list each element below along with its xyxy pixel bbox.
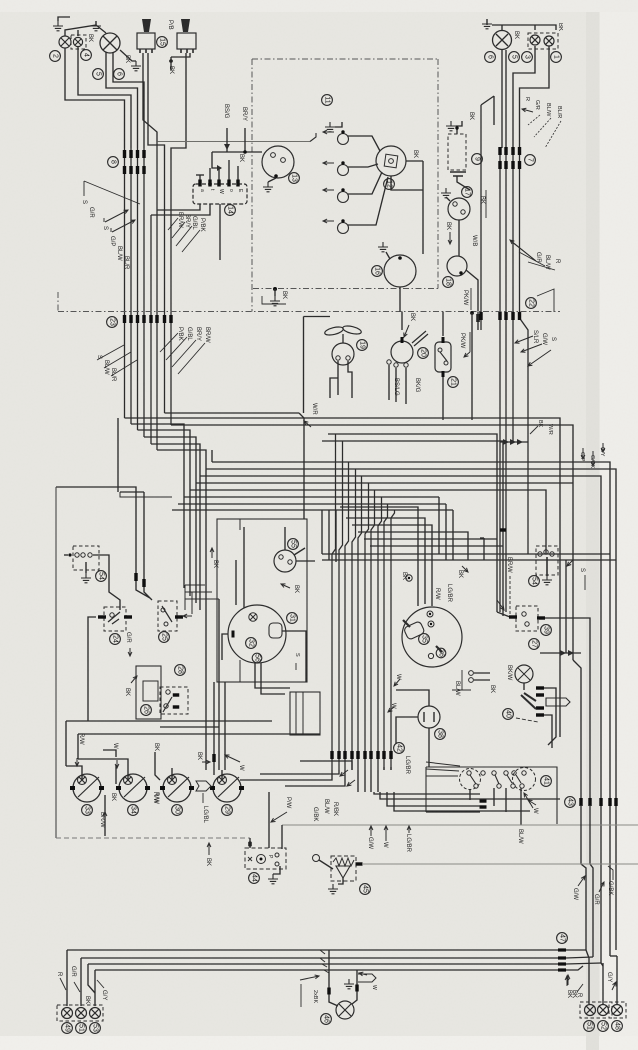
item 13 ignition switch xyxy=(289,173,300,184)
stubs console xyxy=(384,767,391,770)
item 33 gauge xyxy=(82,805,93,816)
gauge pin right 33 xyxy=(99,786,104,790)
item 49 lamp xyxy=(62,1023,73,1034)
item 9 battery xyxy=(472,154,483,165)
coil terminal 2 xyxy=(461,210,465,214)
ign terminal b xyxy=(281,158,286,163)
connector42 pin x332 xyxy=(330,751,333,759)
x484 link xyxy=(480,537,484,539)
arrow gp xyxy=(581,448,585,459)
sw25 terminal a xyxy=(161,608,165,612)
flasher dot xyxy=(260,858,263,861)
s bracket xyxy=(584,575,586,590)
sw39 term b xyxy=(525,622,529,626)
drops into console xyxy=(358,770,378,792)
stair h y539 xyxy=(364,538,497,540)
starter terminal xyxy=(398,256,402,260)
ground bulkhead xyxy=(270,296,280,306)
item 46 lamp xyxy=(321,1014,332,1025)
stair h y525 xyxy=(352,525,432,606)
connector pin upper row xyxy=(136,150,139,158)
sw40 wire right xyxy=(544,688,556,745)
lamp46 lead left xyxy=(329,950,338,1006)
wire coil to starter aux xyxy=(458,220,460,256)
connector42 pin x378 xyxy=(376,751,379,759)
fan wire d xyxy=(300,761,352,770)
battery lead xyxy=(456,128,458,134)
wire fuse drop xyxy=(219,204,221,260)
battery box xyxy=(448,134,466,170)
rear lamp link 1 xyxy=(586,950,589,975)
item 21 xyxy=(448,377,459,388)
generator 18 xyxy=(447,256,467,276)
arrowhead BS/G xyxy=(224,144,230,150)
connector pin bulkhead row xyxy=(149,315,152,323)
loom drop x391 xyxy=(391,510,395,770)
right flasher housing xyxy=(528,33,558,49)
s leader xyxy=(295,663,297,670)
sw41 term top x494 xyxy=(492,771,496,775)
arrow gy xyxy=(601,443,605,452)
headlamp right xyxy=(493,31,512,50)
warning gauge 29 xyxy=(213,774,241,802)
sw41 term bottom x476 xyxy=(474,784,478,788)
nest h y504 xyxy=(178,504,446,560)
nest run y437 drop x196 xyxy=(144,437,196,603)
terminal pair b xyxy=(469,678,474,683)
wiper linkage xyxy=(412,331,428,346)
run y727 xyxy=(160,726,219,728)
battery to coil link xyxy=(457,176,470,190)
gauge29 hub feed xyxy=(221,770,223,780)
wire stub to ground xyxy=(274,289,276,296)
wire fuse link a xyxy=(212,152,221,168)
x304 corner right xyxy=(304,316,331,318)
ground front lamp xyxy=(91,21,101,31)
item 4 flasher lamp xyxy=(81,50,92,61)
headlamp left xyxy=(100,33,120,53)
stub top xyxy=(103,750,116,757)
54L lead dot xyxy=(68,553,71,556)
connector pin right upper xyxy=(498,147,501,155)
pin x144 xyxy=(142,579,145,587)
bulkhead dash-dot line xyxy=(58,311,560,313)
sw40 pin y695 xyxy=(536,693,544,696)
sw41 feeds left xyxy=(426,762,460,776)
item 52 rear xyxy=(598,1021,609,1032)
arrow brw xyxy=(103,812,107,822)
fan motor 19 xyxy=(332,343,354,365)
sw41 term top x483 xyxy=(481,771,485,775)
merge arrowheads xyxy=(503,439,523,445)
starter motor 16 xyxy=(384,255,416,287)
distributor 12 xyxy=(376,146,406,176)
plug lead 1 xyxy=(348,136,380,151)
wire stub down xyxy=(170,57,172,70)
lamp55 leads xyxy=(285,527,305,555)
nest run y444 drop x200 xyxy=(151,444,200,610)
gauge pin left 33 xyxy=(70,786,75,790)
lamp55 lead right xyxy=(296,560,315,562)
P/W wire to flasher xyxy=(268,792,270,848)
wire switchA feed xyxy=(143,53,157,142)
connector pin lower row xyxy=(136,166,139,174)
horn 45 box xyxy=(331,856,356,881)
ground flasher xyxy=(268,874,278,884)
spark plug 3 xyxy=(338,192,349,203)
fuse box pin xyxy=(217,180,220,187)
connector pin lower row xyxy=(129,166,132,174)
front lamp 53 xyxy=(90,1008,101,1019)
sw40 wire right 2 xyxy=(544,715,552,748)
ign terminal c xyxy=(274,174,278,178)
wire sideR feed xyxy=(520,46,550,148)
item 55 lamp xyxy=(288,539,299,550)
rear lamp 51 xyxy=(585,1005,596,1016)
plug terminal 1 xyxy=(341,130,344,133)
leader lines bulkhead xyxy=(160,333,205,374)
ground dip xyxy=(131,61,141,71)
horn terminal lead xyxy=(319,860,333,869)
horn coil zigzag xyxy=(333,858,354,866)
front lamp 51 xyxy=(76,1008,87,1019)
nest run y424 drop x184 xyxy=(131,424,184,588)
wire generator lead xyxy=(466,270,478,311)
arrow gy rear xyxy=(612,982,616,990)
arrow bk pin xyxy=(202,760,210,764)
heater resistor box 26 xyxy=(136,666,161,719)
item 36 xyxy=(436,648,446,658)
jog out 3 xyxy=(566,963,601,964)
arrow wiper xyxy=(404,325,409,337)
wire bus 4 xyxy=(143,148,145,437)
leader r front xyxy=(60,978,66,990)
junction ign feed xyxy=(243,150,247,154)
coil terminal 1 xyxy=(453,202,457,206)
pump lead up xyxy=(442,312,444,337)
bottom run 2 xyxy=(81,957,563,959)
fan terminal 2 xyxy=(346,356,350,360)
sw41 term top x469 xyxy=(467,771,471,775)
wire top-right feed xyxy=(487,19,556,30)
jog d xyxy=(324,970,329,973)
arrow w h xyxy=(394,679,400,686)
gauge right lead to box edge xyxy=(282,631,306,682)
spark plug 1 xyxy=(338,134,349,145)
arrow fan a xyxy=(340,770,348,776)
lighter bottom margin xyxy=(0,1036,638,1050)
jog out 2 xyxy=(566,957,593,958)
wire lamp4 stub xyxy=(77,30,79,36)
wire right bus 0 xyxy=(480,105,482,330)
junction at flasher top xyxy=(248,841,252,845)
horn ground lead xyxy=(338,878,343,884)
sw39 term a xyxy=(522,612,526,616)
lamp55 term b xyxy=(288,560,292,564)
gauge left lead xyxy=(222,634,228,660)
wire starter ground xyxy=(386,252,390,259)
leader lines right bus xyxy=(512,242,555,270)
connector43 pin x610 xyxy=(608,798,611,806)
front lamp 49 xyxy=(62,1008,73,1019)
gauge bulb 29 xyxy=(218,776,227,785)
pump lead down xyxy=(442,377,444,420)
flasher unit 44 box xyxy=(245,848,286,869)
terminal pair a xyxy=(469,671,474,676)
nest h y434 to sw39 xyxy=(328,434,497,612)
arrow w console xyxy=(528,800,536,805)
interior boundary vertical xyxy=(55,487,57,838)
fuse box pin xyxy=(198,180,201,187)
battery terminal xyxy=(455,126,458,129)
arrow flag xyxy=(359,972,367,976)
stalk switch body A xyxy=(137,33,155,49)
gauge needle 34 xyxy=(124,777,145,797)
fuse box pin xyxy=(227,180,230,187)
connector pin right upper xyxy=(504,147,507,155)
flasher term a xyxy=(275,853,279,857)
arrow pkw2 xyxy=(464,352,470,357)
speedo term 2 xyxy=(428,621,434,627)
console bottom lead xyxy=(426,811,480,813)
sw40 connector flag xyxy=(546,698,570,706)
ground item 11 xyxy=(325,122,335,132)
54R term c xyxy=(550,552,554,556)
wire link to headlamp xyxy=(96,25,106,33)
connector flag 46 xyxy=(358,974,376,982)
item 5 headlamp main xyxy=(93,69,104,80)
gauge pin left 34 xyxy=(116,786,121,790)
arrow w h2 xyxy=(388,707,394,712)
interior boundary bottom xyxy=(56,837,250,839)
side lamp 2 xyxy=(59,36,71,48)
ground ignition xyxy=(263,182,273,192)
item 39 switch xyxy=(541,625,552,636)
leader gr front xyxy=(74,982,80,992)
lamp55 term a xyxy=(279,555,283,559)
connector47 pin y958 xyxy=(558,956,566,959)
link nest to mid bus xyxy=(321,510,323,554)
warning gauge 33 xyxy=(73,774,101,802)
wire switchB feed xyxy=(171,53,186,160)
switch 39 box xyxy=(516,606,538,631)
connector pin bulkhead row xyxy=(136,315,139,323)
pin sw39 left xyxy=(509,615,517,618)
warning gauge 30 xyxy=(163,774,191,802)
wire BS/G drop xyxy=(226,128,228,152)
item 28 switch xyxy=(175,665,186,676)
arrow speedo feed xyxy=(462,566,468,572)
x566 drop xyxy=(565,560,567,653)
wire switchA feed 2 xyxy=(148,53,165,160)
plug terminal 2 xyxy=(341,161,344,164)
gauge term xyxy=(249,613,257,621)
speedo inner box xyxy=(403,621,425,640)
wire 54L to switch24 xyxy=(93,555,120,610)
loom drop x345 xyxy=(345,462,349,770)
connector47 pin y950 xyxy=(558,948,566,951)
switch 24 box xyxy=(104,607,126,631)
wire switchB link xyxy=(171,53,190,57)
gauge feeds xyxy=(236,527,244,608)
front lamp lead 2 xyxy=(80,958,82,1006)
wire ground 11 xyxy=(335,122,342,127)
leader gy front xyxy=(97,980,104,988)
connector pin bulkhead row xyxy=(155,315,158,323)
junction bulkhead right xyxy=(470,311,474,315)
rear link 2 xyxy=(601,963,603,966)
console out d xyxy=(394,792,530,811)
sw40 pin y715 xyxy=(536,713,544,716)
loom drop x358 xyxy=(358,476,362,770)
wire right bus 3 xyxy=(512,148,514,442)
item 54 switch xyxy=(96,571,107,582)
connector pin right bulkhead xyxy=(511,312,514,320)
instrument cluster box xyxy=(217,519,307,682)
rear lamp lead 2 xyxy=(602,963,604,1004)
item 34 gauge xyxy=(128,805,139,816)
interior lamp 55 xyxy=(274,550,296,572)
connector42 pin x345 xyxy=(343,751,346,759)
leader arrow to bus 2 xyxy=(112,220,135,232)
flasher top lead xyxy=(249,838,251,848)
connector pin bulkhead row xyxy=(142,315,145,323)
starter lead down xyxy=(399,287,401,312)
item 29 gauge xyxy=(222,805,233,816)
nest h y490 xyxy=(190,490,546,554)
arrow gbk xyxy=(591,451,595,466)
item 17 coil xyxy=(462,187,473,198)
connector43 pin x590 xyxy=(588,798,591,806)
boundary right dash-dot xyxy=(437,59,439,289)
54L ground lead xyxy=(85,562,87,573)
wire headlamp main feed xyxy=(106,52,138,148)
wire bus0 head xyxy=(481,96,494,125)
stub right xyxy=(477,312,479,331)
flasher lamp right xyxy=(530,35,540,45)
connector pin right bulkhead xyxy=(504,312,507,320)
gauge34 hub feed xyxy=(78,759,128,780)
arrow rw xyxy=(75,758,79,766)
ground coil xyxy=(441,188,451,198)
stalk switch body B xyxy=(177,33,196,49)
nest h y510 xyxy=(172,510,453,560)
speedo dot 1 xyxy=(429,613,431,615)
speedometer dial xyxy=(402,607,462,667)
run left y721 xyxy=(66,721,160,766)
loom drop x339 xyxy=(339,441,343,770)
leader arrow c xyxy=(528,350,551,366)
pin lamp46 xyxy=(327,988,330,995)
nest h y441 down xyxy=(322,441,503,616)
sw40 dash link xyxy=(516,718,538,722)
item 53 lamp xyxy=(90,1023,101,1034)
bracket item22 xyxy=(537,289,554,312)
gauge bulb 30 xyxy=(168,776,177,785)
warning gauge 34 xyxy=(119,774,147,802)
connector42 pin x371 xyxy=(369,751,372,759)
merge arrowheads y653 xyxy=(560,650,574,656)
stalk switch handle A xyxy=(142,19,151,32)
gauge needle 30 xyxy=(168,777,189,797)
bottom run 4 xyxy=(95,969,560,971)
x484 stub xyxy=(483,538,485,560)
faint scan band xyxy=(586,0,599,1050)
number plate lamp 46 xyxy=(336,1001,354,1019)
front lamp lead 3 xyxy=(94,970,96,1006)
connector arrow main cross run xyxy=(310,133,316,142)
leader line G/R xyxy=(84,181,140,204)
item 23 bulkhead connector xyxy=(107,317,118,328)
rear lamp box a xyxy=(580,1002,612,1018)
drop to flasher xyxy=(281,825,283,849)
plug lead 3 xyxy=(348,172,382,194)
nest h y497 xyxy=(184,497,439,554)
item 14 fuse box xyxy=(225,205,236,216)
boundary left dash-dot xyxy=(251,59,253,312)
lighter right margin xyxy=(600,0,638,1050)
drop to lamp row c xyxy=(224,682,226,770)
fan blades xyxy=(342,334,344,343)
x304 vertical from boundary xyxy=(303,317,305,414)
fuse label leaders xyxy=(168,218,200,252)
plug lead arrow 2 xyxy=(323,161,334,165)
inner stubs xyxy=(185,585,192,614)
wire dist to coil xyxy=(406,160,423,162)
cluster inner verticals xyxy=(239,519,241,682)
flasher term b xyxy=(275,862,279,866)
front lamp lead 1 xyxy=(66,950,68,1006)
stair h y546 xyxy=(370,545,503,547)
wire headlamp to ground xyxy=(120,50,136,61)
bus merge h y442 xyxy=(500,441,528,443)
link into sw39 xyxy=(497,612,510,617)
connector pin right lower xyxy=(504,161,507,169)
item 40 switch xyxy=(503,709,514,720)
leader bk merge xyxy=(530,426,538,434)
item 35 speedo xyxy=(419,634,430,645)
item 16 starter xyxy=(372,266,383,277)
wire bus 2 xyxy=(130,148,132,424)
wire ign to fuse box xyxy=(212,151,262,153)
pin lamp46 b xyxy=(355,985,358,992)
spark plug 2 xyxy=(338,165,349,176)
connector pin right lower xyxy=(498,161,501,169)
fuse box pin xyxy=(208,180,211,187)
arrow w2 xyxy=(225,755,240,762)
arrow 2xbk xyxy=(300,975,319,980)
rear lamp lead 3 xyxy=(616,956,618,1004)
wire flasherR feed xyxy=(513,46,535,148)
heater lead up xyxy=(396,690,429,706)
connector42 pin x384 xyxy=(382,751,385,759)
heater lead left xyxy=(396,717,418,744)
item 51 lamp xyxy=(76,1023,87,1034)
stair h y507 xyxy=(340,507,418,606)
arrow gr2 xyxy=(599,882,604,892)
sw41 drops xyxy=(470,788,521,825)
ground front-right xyxy=(482,19,492,29)
gauge needle 29 xyxy=(218,777,239,797)
connector pin upper row xyxy=(142,150,145,158)
54L terminal 2 xyxy=(81,553,85,557)
wire dist low xyxy=(391,176,423,190)
wire fuse to bus6 xyxy=(157,204,200,210)
arrow into sw41 xyxy=(524,793,533,808)
wire headlampR feed2 xyxy=(505,50,507,148)
item 45 horn xyxy=(360,884,371,895)
rear lamp lead 1 xyxy=(588,975,590,1004)
